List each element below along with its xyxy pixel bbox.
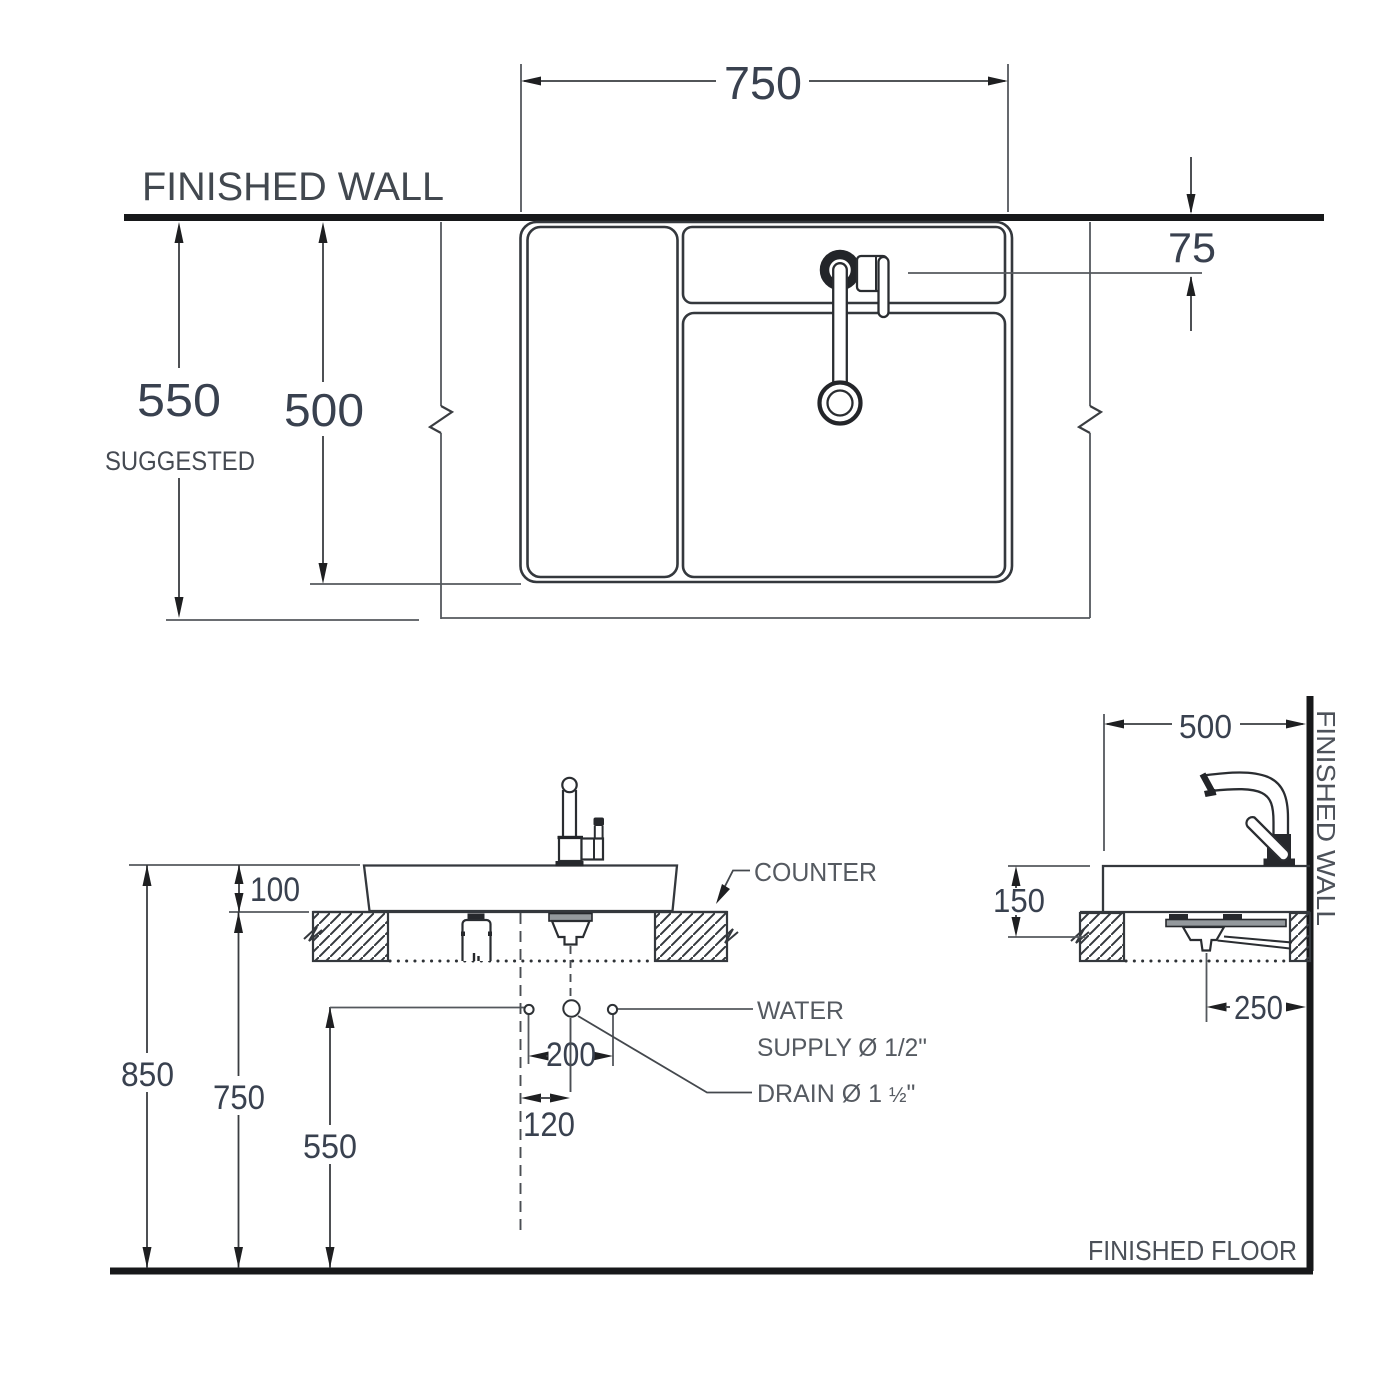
svg-text:SUPPLY Ø 1/2": SUPPLY Ø 1/2" (757, 1034, 927, 1062)
counter hatched block (side left) (1080, 913, 1124, 961)
dimension 150 (side): extension lines (1008, 865, 1090, 867)
dimension 250 (drain to wall) (1207, 1003, 1227, 1012)
dimension 200 (supply spacing) (528, 1015, 530, 1064)
dimension 150 (side): dimension line with arrows (1015, 883, 1017, 888)
dimension 100 (basin top to counter top) (238, 865, 240, 912)
drain drop line (front) (570, 946, 572, 998)
bottom extension line (plan, left piece) (166, 619, 419, 621)
right extension line with break symbol (1089, 222, 1091, 406)
counter bottom dotted line (front) (390, 960, 653, 963)
svg-text:250: 250 (1234, 989, 1283, 1026)
svg-text:500: 500 (284, 384, 364, 436)
leader line from faucet to 75 dimension (908, 272, 1202, 274)
svg-text:120: 120 (523, 1106, 575, 1144)
faucet (side): base block (1267, 834, 1291, 862)
dimension 550 (floor to water supply) (329, 1007, 331, 1125)
dimension 750: right extension line (1007, 64, 1009, 212)
counter bottom dotted line (side) (1126, 960, 1288, 963)
counter hatched block (front left) (313, 912, 388, 961)
drain assembly (side): waste pipe to wall (1218, 937, 1293, 949)
svg-text:550: 550 (303, 1128, 357, 1166)
counter hatched block (side right) (1290, 913, 1310, 961)
faucet (plan): spout tube (833, 263, 847, 400)
dimension 500 (side, basin depth): extension line (1103, 714, 1105, 851)
faucet (front): lever stick with cap (595, 826, 603, 839)
faucet (front): body (559, 837, 582, 861)
faucet (front): base flange (556, 861, 584, 867)
drain label and leader (578, 1016, 752, 1093)
water supply circle (right) (608, 1005, 617, 1014)
break mark on right counter edge (720, 929, 738, 943)
svg-text:COUNTER: COUNTER (754, 857, 877, 887)
svg-text:750: 750 (724, 57, 802, 109)
basin (side elevation) (1103, 866, 1310, 911)
faucet (side): spout tip (1203, 774, 1213, 792)
floor line (110, 1268, 1313, 1275)
drain assembly (side): clamp blocks (1169, 914, 1188, 922)
counter top line (side) (1080, 911, 1310, 913)
svg-text:DRAIN Ø 1 ½": DRAIN Ø 1 ½" (757, 1080, 915, 1108)
dimension 750: dimension line with arrows (524, 80, 1005, 82)
dimension 750 (floor to counter top) (238, 912, 240, 1076)
drain fitting (front): flange (549, 914, 592, 922)
svg-text:550: 550 (137, 374, 221, 426)
dimension 75 (wall to faucet center) (1190, 157, 1192, 212)
dashed centerline (front) (520, 913, 522, 1233)
svg-text:FINISHED FLOOR: FINISHED FLOOR (1088, 1235, 1297, 1266)
water supply label and leader (618, 1008, 753, 1010)
faucet (plan): base ring (825, 255, 856, 286)
dimension 750: left extension line (520, 64, 522, 212)
faucet (front): side lever bracket (582, 839, 604, 860)
drain circle (center) (563, 1000, 579, 1016)
sink rim (plan outer rounded rectangle) (521, 222, 1013, 582)
svg-text:SUGGESTED: SUGGESTED (105, 446, 255, 476)
dimension 850 (floor to basin top) (146, 865, 148, 1053)
reference line at supply height (330, 1007, 524, 1009)
drain assembly (side): flange band (1166, 920, 1286, 927)
right main basin (plan) (683, 313, 1005, 577)
svg-text:150: 150 (993, 882, 1045, 919)
drain assembly (side): funnel (1183, 927, 1224, 951)
svg-text:100: 100 (250, 871, 300, 909)
dimension 550 SUGGESTED (wall to sink front) (178, 240, 180, 368)
counter hatched block (front right) (655, 912, 727, 961)
faucet (plan): spout end ring (820, 383, 861, 424)
left basin compartment (plan) (528, 227, 678, 577)
extension line from drain center (side) (1206, 953, 1208, 1022)
extension line at counter top (front, for 100/750) (229, 911, 309, 913)
svg-text:850: 850 (121, 1056, 174, 1094)
svg-text:WATER: WATER (757, 997, 844, 1025)
svg-text:75: 75 (1168, 224, 1216, 271)
faucet (plan): lever pointing forward (879, 257, 889, 317)
faucet (side): spout curve (1205, 772, 1288, 836)
left extension line with break symbol (440, 222, 442, 406)
faucet (plan): handle body (857, 256, 887, 291)
right faucet tray (plan, top strip) (683, 227, 1005, 303)
faucet (side): lever handle (1246, 817, 1289, 860)
dimension 500 (plan, wall to basin front) (322, 240, 324, 382)
svg-text:500: 500 (1179, 708, 1232, 745)
svg-text:750: 750 (213, 1079, 265, 1117)
counter top line (front) (313, 911, 727, 913)
extension line for 500 (plan) (310, 583, 521, 585)
water supply circle (left) (524, 1005, 533, 1014)
dimension 120 (drain offset) (521, 1094, 541, 1103)
wall line (side, vertical) (1307, 696, 1314, 1271)
svg-text:FINISHED WALL: FINISHED WALL (1311, 710, 1341, 926)
wall line (plan) (124, 214, 1324, 221)
faucet (front): riser tube with ball top (562, 778, 576, 792)
break mark on side-left counter edge (1071, 929, 1089, 943)
break mark on left counter edge (304, 927, 322, 941)
water supply stub under counter (front) (468, 914, 485, 921)
svg-text:FINISHED WALL: FINISHED WALL (142, 165, 444, 209)
bottom extension line (plan, under sink) (441, 617, 1090, 619)
extension line at basin top (front, for 850/100) (129, 864, 360, 866)
basin (front elevation) (364, 866, 677, 912)
drain fitting (front): funnel body (552, 921, 590, 945)
dimension 500 (side): dimension line with arrows (1107, 723, 1172, 725)
